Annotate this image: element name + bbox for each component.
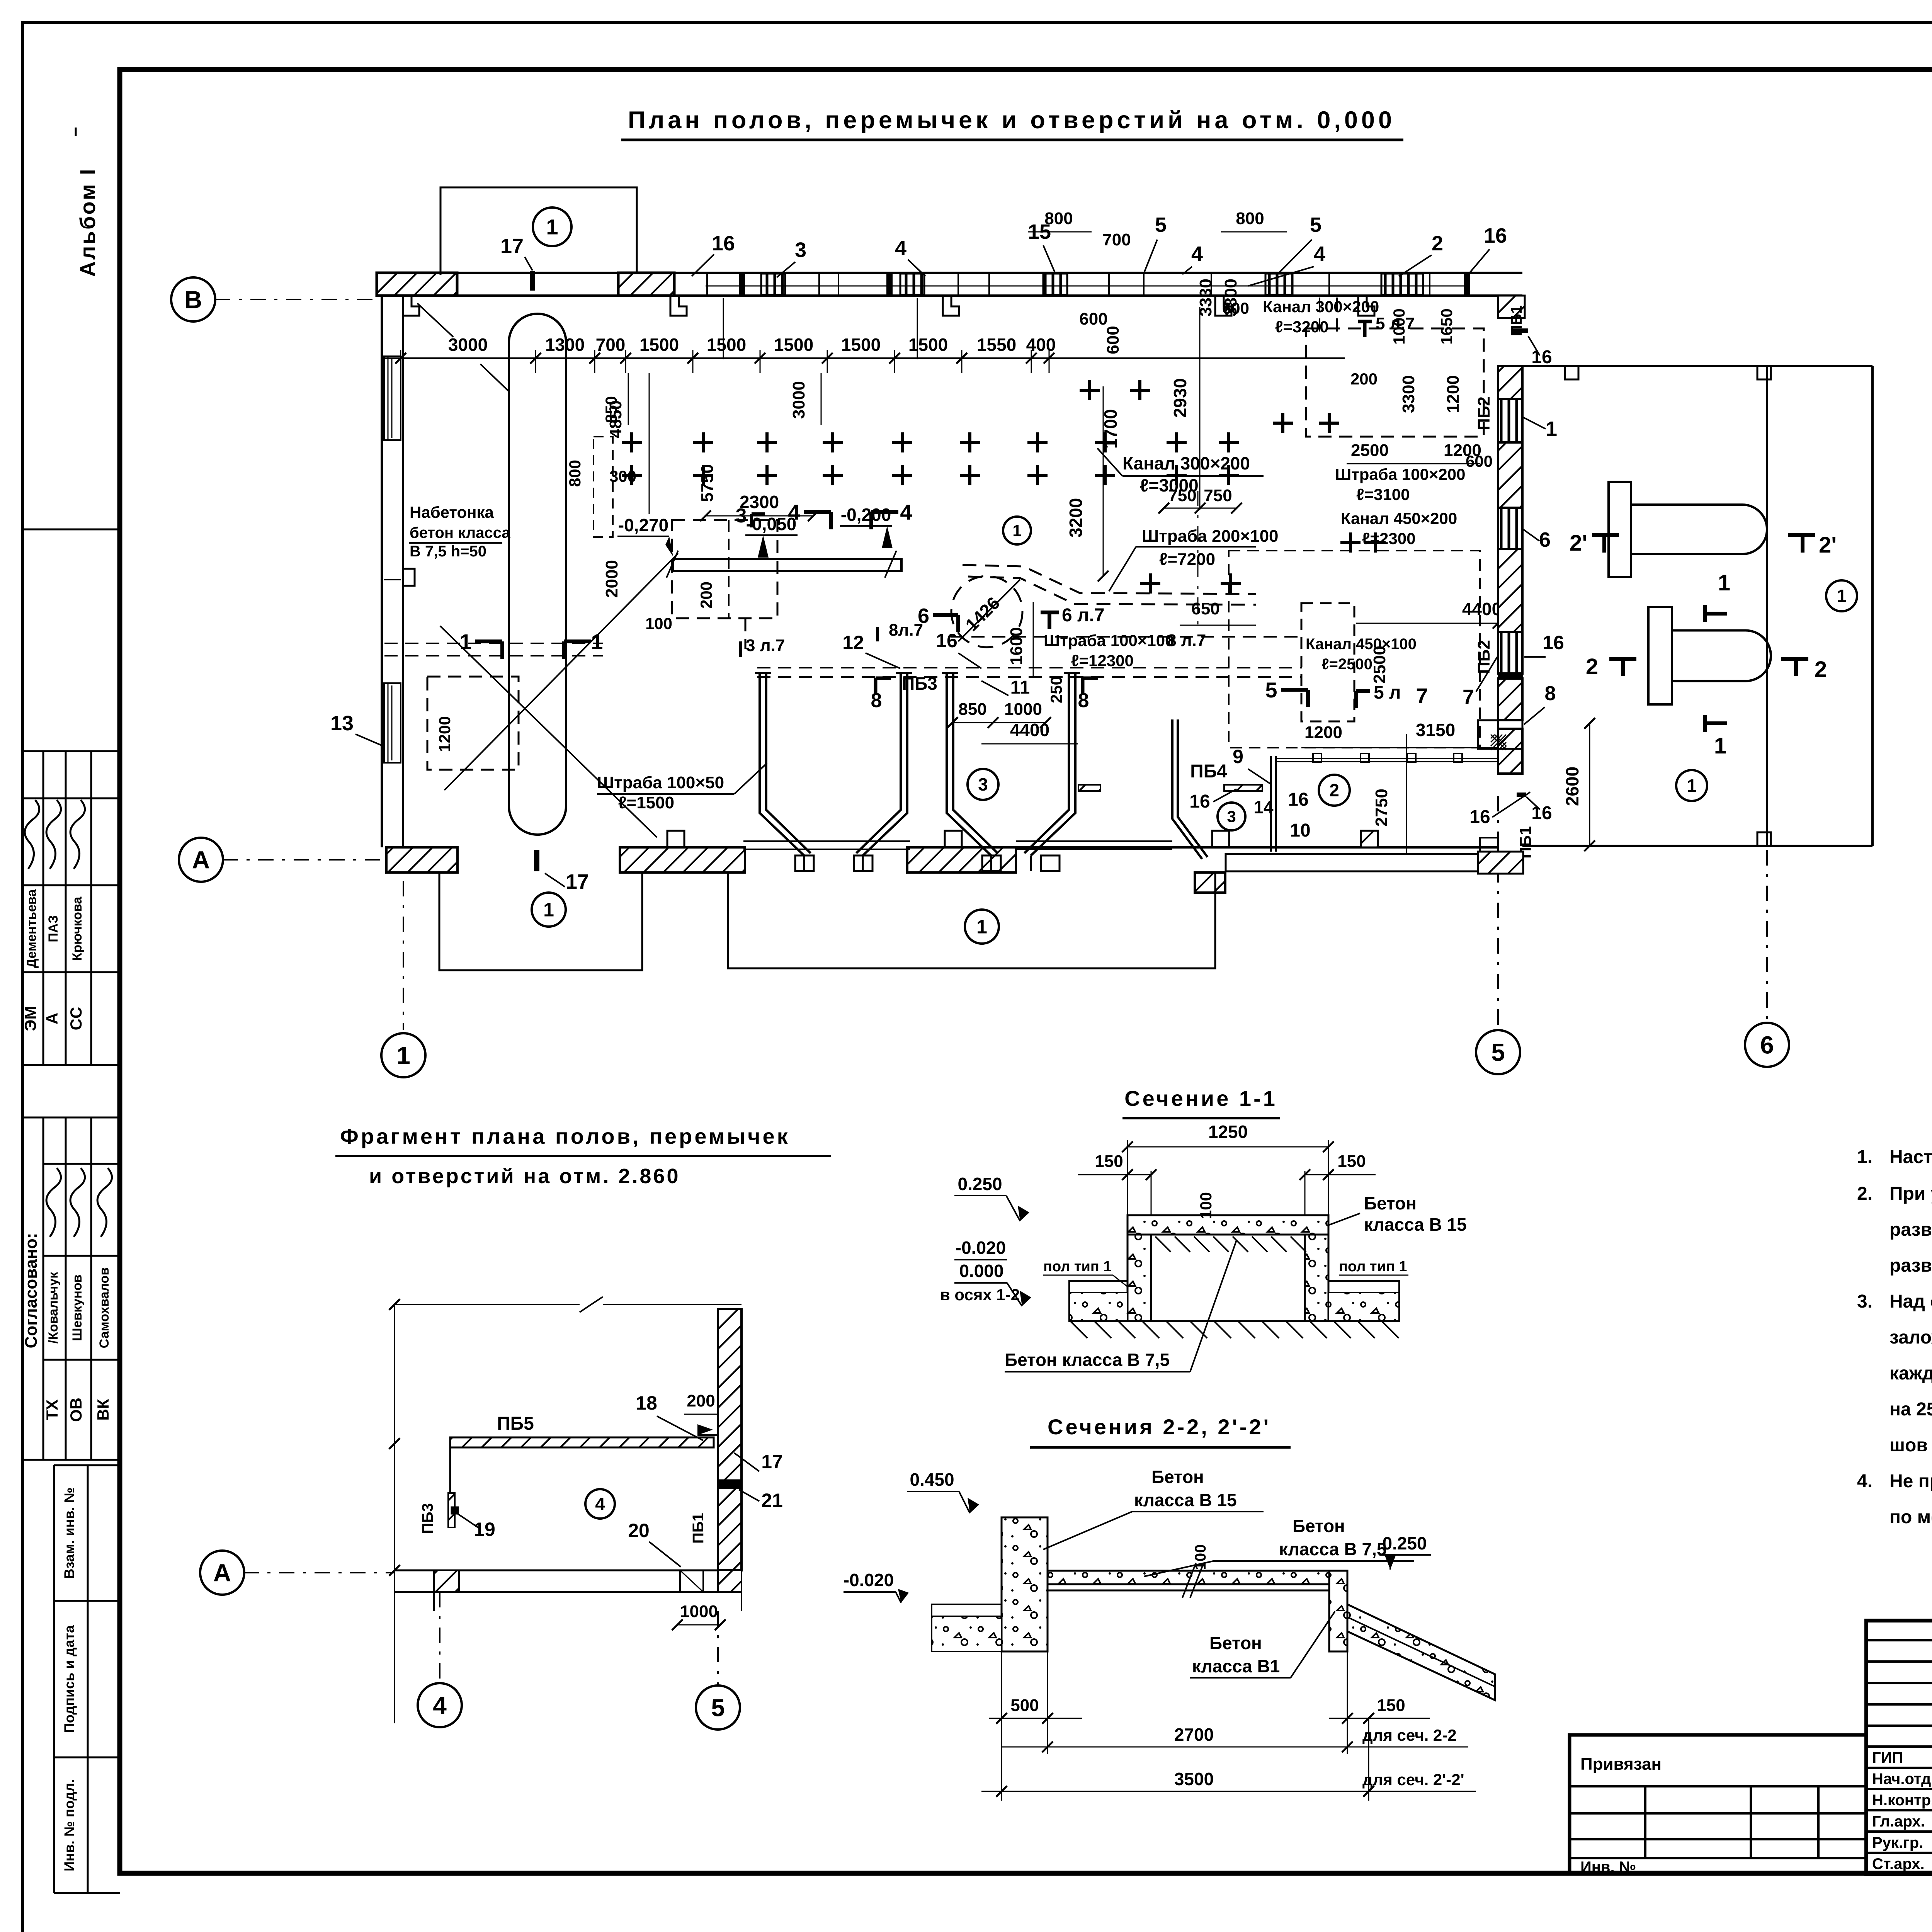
right wall column	[1498, 366, 1522, 399]
svg-text:100: 100	[645, 614, 672, 633]
svg-text:3000: 3000	[448, 335, 488, 355]
vertical dashed duct	[1319, 298, 1320, 337]
svg-text:каждые 13 см кладки, но не мен: каждые 13 см кладки, но не менее двух ст…	[1889, 1363, 1932, 1384]
svg-text:Шевкунов: Шевкунов	[70, 1274, 85, 1341]
bin 2	[947, 673, 998, 855]
svg-text:250: 250	[1047, 676, 1065, 703]
SE corner wall blocks	[1478, 852, 1523, 874]
svg-text:шов на 70 мм с обеих сторон.: шов на 70 мм с обеих сторон.	[1889, 1435, 1932, 1456]
svg-text:0.250: 0.250	[1382, 1533, 1427, 1553]
svg-text:7: 7	[1416, 684, 1428, 708]
svg-text:Бетон: Бетон	[1364, 1193, 1417, 1213]
svg-text:класса В 15: класса В 15	[1134, 1490, 1237, 1510]
circled 1 center plan	[1003, 517, 1031, 544]
svg-text:1550: 1550	[977, 335, 1016, 355]
svg-text:18: 18	[636, 1392, 657, 1414]
svg-text:0.000: 0.000	[959, 1261, 1003, 1281]
svg-text:План полов, перемычек и отверс: План полов, перемычек и отверстий на отм…	[628, 107, 1395, 134]
svg-text:150: 150	[1377, 1696, 1405, 1715]
axis B dash-dot line	[215, 299, 381, 300]
right room outline	[1498, 365, 1872, 367]
2600 dim	[1589, 723, 1590, 846]
svg-text:600: 600	[1222, 299, 1249, 317]
svg-text:Согласовано:: Согласовано:	[22, 1233, 41, 1349]
svg-text:600: 600	[1104, 326, 1122, 354]
west wall inner notch blocks	[403, 569, 415, 586]
foundation outline center	[728, 872, 1215, 968]
crosses (column marks)	[622, 432, 642, 452]
svg-text:17: 17	[500, 235, 524, 258]
svg-text:1500: 1500	[841, 335, 881, 355]
svg-text:1: 1	[1546, 417, 1557, 440]
svg-text:200: 200	[697, 582, 715, 609]
main dimension line	[382, 357, 1345, 359]
150 dims	[1078, 1174, 1151, 1175]
svg-text:класса В 7,5: класса В 7,5	[1279, 1539, 1386, 1559]
svg-text:Нач.отд.: Нач.отд.	[1872, 1770, 1932, 1787]
svg-text:ПБ5: ПБ5	[497, 1413, 534, 1434]
svg-text:2: 2	[1815, 657, 1827, 682]
svg-text:3300: 3300	[1399, 375, 1418, 413]
tank (stadium shape)	[509, 314, 566, 835]
svg-text:2': 2'	[1570, 531, 1587, 556]
svg-text:850: 850	[958, 700, 986, 719]
black separators in north wall	[739, 273, 745, 296]
svg-text:-0,270: -0,270	[618, 515, 668, 535]
svg-text:пол тип 1: пол тип 1	[1339, 1259, 1407, 1275]
svg-text:1300: 1300	[545, 335, 585, 355]
svg-text:600: 600	[1466, 452, 1493, 470]
svg-text:Рук.гр.: Рук.гр.	[1872, 1834, 1923, 1851]
svg-text:500: 500	[1010, 1696, 1039, 1715]
svg-text:заложить арматуру в количестве: заложить арматуру в количестве одного ст…	[1889, 1327, 1932, 1348]
svg-text:1: 1	[1837, 586, 1847, 606]
wall cell separators	[706, 273, 708, 296]
svg-text:для сеч. 2-2: для сеч. 2-2	[1362, 1726, 1457, 1744]
svg-text:1500: 1500	[908, 335, 948, 355]
side floors	[1069, 1281, 1128, 1293]
svg-text:ПБ2: ПБ2	[1475, 396, 1493, 430]
svg-text:ВК: ВК	[94, 1399, 112, 1420]
PB4 lintel bars	[1224, 785, 1262, 791]
fragment floor	[395, 1570, 742, 1571]
break mark on slab	[1182, 1563, 1196, 1598]
svg-text:5: 5	[711, 1694, 725, 1721]
svg-text:Канал 300×200: Канал 300×200	[1263, 298, 1379, 316]
svg-text:13: 13	[330, 712, 354, 735]
svg-text:разводку для прокладки электро: разводку для прокладки электрокабелей, м…	[1889, 1219, 1932, 1240]
svg-text:ПАЗ: ПАЗ	[46, 915, 61, 942]
svg-text:пол тип 1: пол тип 1	[1043, 1259, 1112, 1275]
svg-text:4400: 4400	[1462, 599, 1502, 619]
svg-text:16: 16	[1543, 632, 1564, 653]
section marker 2apos right	[1788, 533, 1815, 537]
svg-text:3 л.7: 3 л.7	[746, 636, 785, 655]
svg-text:150: 150	[1337, 1152, 1366, 1171]
svg-text:2': 2'	[1819, 532, 1837, 558]
dashed shtraba lines	[384, 643, 603, 644]
svg-text:5 л.7: 5 л.7	[1376, 314, 1415, 333]
svg-text:ПБ3: ПБ3	[419, 1503, 436, 1534]
svg-text:2500: 2500	[1351, 441, 1389, 460]
tick 17 south	[534, 850, 539, 871]
svg-text:Привязан: Привязан	[1580, 1755, 1662, 1774]
svg-text:в осях 1-2: в осях 1-2	[940, 1286, 1020, 1304]
svg-text:3: 3	[978, 774, 988, 794]
svg-text:2: 2	[1432, 232, 1443, 255]
svg-text:3000: 3000	[789, 381, 808, 419]
hooks above south wall	[667, 831, 684, 847]
left floor slab	[932, 1604, 1002, 1616]
grid circle 6	[1745, 1023, 1789, 1067]
svg-text:100: 100	[1197, 1192, 1215, 1219]
fragment right wall hatched	[718, 1309, 742, 1570]
svg-text:Канал 300×200: Канал 300×200	[1122, 453, 1250, 473]
svg-text:Подпись и дата: Подпись и дата	[61, 1625, 77, 1733]
svg-text:А: А	[43, 1013, 61, 1024]
svg-text:1650: 1650	[1437, 308, 1456, 344]
svg-text:ЭМ: ЭМ	[21, 1006, 39, 1031]
svg-text:1: 1	[1714, 733, 1726, 759]
svg-text:ОВ: ОВ	[67, 1398, 85, 1422]
svg-text:2.: 2.	[1857, 1184, 1872, 1204]
svg-text:850: 850	[602, 396, 620, 423]
svg-text:ℓ=3200: ℓ=3200	[1275, 318, 1329, 336]
sidebar block A	[22, 750, 120, 752]
svg-text:класса В 15: класса В 15	[1364, 1214, 1467, 1235]
svg-text:9: 9	[1233, 746, 1243, 767]
hooks below north wall	[403, 296, 419, 316]
svg-text:2500: 2500	[1370, 646, 1389, 684]
south platform band	[1226, 854, 1517, 871]
slab bar with elevations	[673, 559, 901, 571]
1250 dim	[1128, 1146, 1328, 1148]
svg-text:1.: 1.	[1857, 1147, 1872, 1167]
svg-text:Бетон класса В 7,5: Бетон класса В 7,5	[1005, 1350, 1170, 1370]
earth hatching	[1070, 1321, 1087, 1338]
svg-text:3: 3	[795, 238, 806, 262]
svg-text:17: 17	[761, 1451, 783, 1473]
svg-text:1: 1	[396, 1041, 410, 1069]
grid circle A	[179, 838, 223, 882]
svg-text:20: 20	[628, 1520, 650, 1541]
right slanted floor	[1347, 1604, 1495, 1700]
svg-text:4: 4	[1191, 242, 1203, 265]
svg-text:1: 1	[459, 629, 471, 654]
svg-text:5: 5	[1310, 213, 1321, 236]
svg-text:8 л.7: 8 л.7	[1167, 631, 1206, 650]
band-wall connector block	[1498, 296, 1525, 318]
svg-text:6: 6	[1760, 1031, 1774, 1059]
svg-text:Инв. № подл.: Инв. № подл.	[61, 1779, 77, 1871]
svg-text:650: 650	[1191, 599, 1219, 618]
svg-text:800: 800	[1236, 209, 1264, 228]
nabetonka leader	[440, 626, 657, 837]
svg-text:11: 11	[1010, 677, 1030, 698]
svg-text:0.450: 0.450	[910, 1469, 954, 1490]
dashed rect right center	[1301, 603, 1354, 721]
svg-text:ℓ=1500: ℓ=1500	[618, 793, 674, 812]
svg-text:14: 14	[1253, 797, 1274, 817]
svg-text:1: 1	[1687, 776, 1697, 796]
svg-text:Настоящий лист смотреть совмес: Настоящий лист смотреть совместно с лист…	[1889, 1147, 1932, 1167]
2300 dim	[706, 515, 813, 517]
svg-text:21: 21	[761, 1490, 783, 1511]
circled 1 markers	[532, 893, 566, 927]
svg-text:200: 200	[687, 1391, 715, 1410]
north wall band outline	[377, 272, 1522, 274]
svg-text:750: 750	[1168, 486, 1196, 505]
privyazan table	[1570, 1735, 1866, 1874]
svg-text:4: 4	[788, 500, 800, 524]
svg-text:750: 750	[1204, 486, 1232, 505]
grid circle 5	[1476, 1030, 1520, 1074]
svg-text:/Ковальчук: /Ковальчук	[46, 1272, 61, 1344]
svg-text:на 250 мм за край отверстия и: на 250 мм за край отверстия и поднятием …	[1889, 1399, 1932, 1420]
svg-text:2: 2	[1586, 654, 1598, 679]
svg-text:17: 17	[566, 870, 589, 893]
svg-text:При устройстве подготовки под: При устройстве подготовки под полы выпол…	[1889, 1184, 1932, 1204]
PB5 lintel bar	[450, 1437, 714, 1447]
fork tank 1	[1609, 482, 1631, 577]
svg-text:ГИП: ГИП	[1872, 1749, 1903, 1766]
north wall hatched block 2	[618, 273, 674, 296]
svg-text:Канал 450×100: Канал 450×100	[1306, 636, 1417, 653]
svg-text:Ст.арх.: Ст.арх.	[1872, 1855, 1925, 1872]
svg-text:5 л: 5 л	[1374, 682, 1401, 703]
north wall hatched block 1	[377, 273, 457, 296]
svg-text:3: 3	[1227, 808, 1236, 826]
svg-text:Штраба 100×100: Штраба 100×100	[1044, 631, 1174, 650]
svg-text:4: 4	[1314, 242, 1325, 265]
svg-text:6 л.7: 6 л.7	[1062, 605, 1105, 626]
svg-text:19: 19	[474, 1519, 495, 1540]
circled 1 in protrusion	[533, 207, 571, 246]
dashed circle 1426	[951, 576, 1022, 647]
svg-text:Инв. №: Инв. №	[1580, 1859, 1636, 1876]
svg-text:и отверстий на отм. 2.860: и отверстий на отм. 2.860	[369, 1165, 680, 1188]
svg-text:Бетон: Бетон	[1151, 1467, 1204, 1487]
svg-text:300: 300	[609, 467, 636, 485]
svg-text:по месту.: по месту.	[1889, 1507, 1932, 1527]
svg-text:2930: 2930	[1170, 378, 1190, 418]
svg-text:Сечения 2-2, 2'-2': Сечения 2-2, 2'-2'	[1048, 1415, 1271, 1439]
svg-text:2: 2	[1329, 780, 1339, 800]
band inner face line	[706, 286, 1464, 287]
circled 4 room mark	[585, 1489, 615, 1519]
svg-text:ПБ1: ПБ1	[690, 1513, 707, 1544]
svg-text:Не привязанные отверстия в сте: Не привязанные отверстия в стенах и пере…	[1889, 1471, 1932, 1492]
circled 1 markers right room	[1826, 580, 1857, 611]
svg-text:16: 16	[1288, 789, 1308, 810]
south hatched block right	[1195, 872, 1225, 893]
svg-text:СС: СС	[67, 1007, 85, 1031]
dashed rect top right	[1306, 328, 1484, 437]
section marker 1 bottom	[1703, 715, 1707, 732]
tick 17	[530, 271, 535, 291]
svg-text:А: А	[192, 846, 210, 874]
bin 3 partition	[1172, 719, 1202, 859]
svg-text:Самохвалов: Самохвалов	[97, 1267, 112, 1349]
south wall	[386, 847, 457, 872]
svg-text:3200: 3200	[1066, 498, 1086, 537]
svg-text:4400: 4400	[1010, 720, 1049, 740]
svg-text:4: 4	[895, 236, 906, 260]
svg-text:1500: 1500	[774, 335, 813, 355]
axis 1 dash-dot line	[403, 881, 404, 1030]
svg-text:-0.020: -0.020	[844, 1570, 894, 1590]
svg-text:1: 1	[546, 215, 558, 239]
svg-text:Гл.арх.: Гл.арх.	[1872, 1813, 1925, 1830]
svg-text:1200: 1200	[435, 716, 454, 752]
svg-text:ПБ4: ПБ4	[1190, 761, 1227, 782]
svg-text:2000: 2000	[602, 560, 621, 598]
svg-text:4: 4	[595, 1494, 605, 1514]
svg-text:-0.020: -0.020	[956, 1238, 1006, 1258]
svg-text:ℓ=2300: ℓ=2300	[1362, 529, 1416, 548]
right wall	[1329, 1571, 1347, 1651]
svg-text:2750: 2750	[1372, 789, 1391, 827]
svg-text:В: В	[184, 286, 202, 313]
svg-text:1250: 1250	[1208, 1122, 1248, 1142]
left column concrete	[1002, 1517, 1048, 1651]
svg-text:1: 1	[543, 899, 554, 921]
svg-text:5: 5	[1491, 1038, 1505, 1066]
svg-text:Бетон: Бетон	[1293, 1516, 1345, 1536]
fragment left dim line	[394, 1304, 395, 1723]
svg-text:Канал 450×200: Канал 450×200	[1341, 509, 1457, 527]
dashed rect A	[672, 520, 777, 618]
axis 6 dash-dot line	[1766, 850, 1768, 1019]
fragment top line with break	[395, 1304, 580, 1305]
svg-text:3.: 3.	[1857, 1291, 1872, 1312]
svg-text:16: 16	[1531, 347, 1552, 367]
conveyor lines	[743, 840, 910, 842]
svg-text:А: А	[213, 1559, 231, 1587]
svg-text:2600: 2600	[1562, 767, 1582, 806]
svg-text:150: 150	[1095, 1152, 1123, 1171]
svg-text:1200: 1200	[1444, 375, 1463, 413]
svg-text:разводок принять по чертежам м: разводок принять по чертежам марки ЭМ.	[1889, 1255, 1932, 1276]
svg-text:Н.контр.: Н.контр.	[1872, 1792, 1932, 1809]
svg-text:1500: 1500	[639, 335, 679, 355]
svg-text:ПБ1: ПБ1	[1508, 305, 1525, 336]
svg-text:16: 16	[1469, 807, 1490, 827]
svg-text:бетон класса: бетон класса	[410, 524, 510, 541]
svg-text:Штраба 100×200: Штраба 100×200	[1335, 465, 1465, 483]
svg-text:400: 400	[1026, 335, 1056, 355]
svg-text:В 7,5 h=50: В 7,5 h=50	[410, 543, 486, 560]
svg-text:700: 700	[1102, 230, 1131, 249]
svg-text:1: 1	[976, 916, 987, 938]
svg-text:для сеч. 2'-2': для сеч. 2'-2'	[1362, 1770, 1464, 1789]
west wall window strips	[384, 356, 401, 440]
foundation outline left	[439, 872, 642, 970]
notches on axis 6	[1757, 366, 1771, 379]
svg-text:ℓ=2500: ℓ=2500	[1321, 656, 1372, 673]
channel cross-section concrete	[1128, 1215, 1328, 1235]
svg-text:1: 1	[1012, 522, 1021, 540]
svg-text:3330: 3330	[1196, 279, 1215, 316]
axis circles fragment	[243, 1572, 395, 1573]
svg-text:16: 16	[1531, 803, 1552, 823]
svg-text:16: 16	[1484, 224, 1507, 247]
svg-text:6: 6	[1539, 528, 1551, 551]
svg-text:ℓ=3100: ℓ=3100	[1356, 485, 1410, 503]
bin feet pads	[795, 855, 814, 871]
svg-text:3500: 3500	[1174, 1769, 1214, 1789]
svg-text:Взам. инв. №: Взам. инв. №	[61, 1487, 77, 1578]
fork tank 2	[1648, 607, 1672, 704]
svg-text:1500: 1500	[707, 335, 746, 355]
svg-text:3: 3	[736, 505, 747, 527]
svg-text:12: 12	[842, 632, 864, 653]
svg-text:Сечение 1-1: Сечение 1-1	[1124, 1086, 1277, 1111]
svg-text:1000: 1000	[680, 1602, 718, 1621]
svg-text:200: 200	[1350, 370, 1378, 388]
svg-text:ℓ=12300: ℓ=12300	[1071, 651, 1134, 670]
svg-text:Над отверстиями до 600 мм в сл: Над отверстиями до 600 мм в слой раствор…	[1889, 1291, 1932, 1312]
svg-text:700: 700	[596, 335, 626, 355]
svg-text:-0,200: -0,200	[841, 505, 891, 525]
svg-text:8: 8	[1545, 682, 1556, 705]
svg-text:1000: 1000	[1004, 700, 1042, 719]
dashed rect B	[427, 677, 519, 770]
grid circle 1	[381, 1033, 425, 1077]
svg-text:600: 600	[1079, 310, 1107, 328]
circled markers 3 2	[968, 769, 998, 800]
svg-text:1: 1	[591, 629, 603, 654]
svg-text:Штраба 100×50: Штраба 100×50	[597, 773, 724, 792]
svg-text:100: 100	[1192, 1544, 1209, 1570]
svg-text:4: 4	[433, 1691, 447, 1719]
svg-text:Крючкова: Крючкова	[70, 896, 85, 961]
west wall	[381, 296, 383, 847]
svg-text:Штраба 200×100: Штраба 200×100	[1142, 527, 1279, 546]
svg-text:1: 1	[1718, 570, 1730, 595]
lintel striped segments in north wall	[761, 274, 785, 295]
svg-text:7: 7	[1463, 685, 1474, 709]
svg-text:800: 800	[566, 460, 584, 487]
trench hatch below slab	[1155, 1236, 1171, 1252]
bin 1	[760, 673, 811, 855]
svg-text:4.: 4.	[1857, 1471, 1872, 1492]
svg-text:Бетон: Бетон	[1209, 1633, 1262, 1653]
svg-text:ПБ3: ПБ3	[902, 673, 937, 694]
sidebar block C	[53, 1465, 55, 1893]
dims below section 2-2	[1001, 1651, 1002, 1801]
grid circle B	[171, 277, 215, 321]
sidebar block B	[22, 1117, 120, 1119]
svg-text:5750: 5750	[698, 464, 717, 502]
svg-text:1200: 1200	[1304, 723, 1342, 742]
svg-text:5: 5	[1265, 678, 1277, 702]
svg-text:15: 15	[1028, 220, 1051, 243]
svg-text:ℓ=7200: ℓ=7200	[1159, 550, 1215, 569]
axis 6 wall line	[1766, 366, 1768, 846]
svg-text:1600: 1600	[1007, 627, 1026, 665]
svg-text:4: 4	[900, 500, 912, 524]
opening 8 box	[1478, 720, 1522, 749]
svg-text:16: 16	[936, 630, 957, 651]
svg-text:Набетонка: Набетонка	[410, 503, 494, 521]
svg-text:5: 5	[1155, 213, 1167, 236]
protrusion room outline	[440, 187, 637, 275]
thin line with squares	[1276, 758, 1498, 759]
svg-text:Альбом I: Альбом I	[75, 167, 100, 277]
section marker 2 right	[1781, 657, 1808, 661]
svg-text:класса В1: класса В1	[1192, 1656, 1280, 1676]
